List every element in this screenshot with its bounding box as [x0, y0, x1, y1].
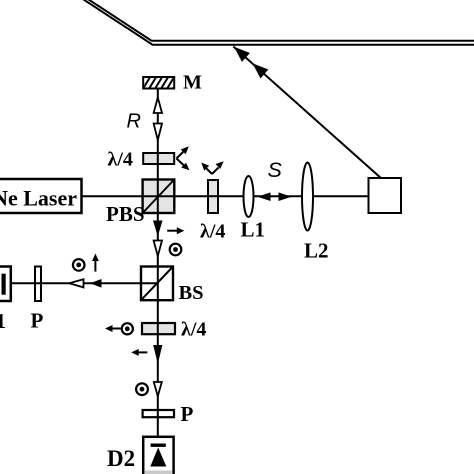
- scanning mirror top double line: [83, 0, 474, 45]
- svg-text:λ/4: λ/4: [108, 149, 133, 171]
- solid arrow left: [90, 279, 102, 288]
- open arrow down above P2: [154, 382, 162, 396]
- mirror M: [141, 74, 182, 92]
- polarizer P1 vertical: [35, 267, 41, 302]
- wire BS to D1: [11, 282, 141, 284]
- arrowhead up-left 1: [234, 47, 250, 62]
- wire laser to PBS: [82, 195, 143, 197]
- solid arrow down below PBS: [153, 221, 163, 237]
- open arrow down: [154, 124, 162, 141]
- solid arrow down below QWP3: [153, 345, 162, 364]
- BS cube: [141, 267, 173, 301]
- circle-dot left of open arrow: [136, 383, 148, 395]
- open arrow left: [69, 279, 83, 287]
- lens L2: [302, 163, 313, 231]
- detector D1: [0, 267, 11, 302]
- circle-dot left of QWP3: [122, 323, 133, 334]
- wire PBS to square: [174, 195, 368, 197]
- svg-text:R: R: [127, 111, 141, 133]
- laser box: [0, 179, 82, 213]
- wire PBS down to BS: [157, 213, 159, 267]
- polarization arrows right of QWP1: [177, 151, 185, 166]
- lens L1: [244, 176, 254, 217]
- svg-text:λ/4: λ/4: [200, 221, 225, 243]
- waveplate QWP2: [208, 180, 218, 213]
- polarizer P2 horizontal: [143, 410, 174, 417]
- svg-text:D2: D2: [107, 446, 135, 471]
- open arrow up: [154, 98, 162, 114]
- svg-text:λ/4: λ/4: [181, 319, 206, 341]
- svg-text:BS: BS: [179, 282, 204, 304]
- arrowhead up-left 2: [253, 63, 269, 78]
- wire BS down to D2: [157, 300, 159, 437]
- waveplate QWP1: [143, 153, 174, 164]
- PBS cube: [143, 180, 175, 214]
- svg-text:L2: L2: [304, 239, 329, 263]
- small arrow right below PBS: [167, 227, 184, 234]
- svg-text:L1: L1: [241, 218, 266, 242]
- small arrow left of QWP3: [105, 325, 121, 332]
- svg-text:D1: D1: [0, 309, 6, 333]
- arrowhead right on S beam: [279, 192, 292, 201]
- detector D2: [143, 437, 173, 474]
- svg-text:PBS: PBS: [106, 202, 145, 226]
- svg-text:He-Ne Laser: He-Ne Laser: [0, 186, 77, 211]
- open arrow down above BS: [154, 241, 162, 257]
- small arrow left below QWP3: [131, 349, 147, 356]
- polarization arrows above QWP2: [206, 168, 219, 175]
- circle-dot above left beam: [73, 259, 85, 271]
- svg-text:S: S: [268, 158, 283, 182]
- svg-text:P: P: [31, 309, 44, 333]
- wire diagonal beam to square: [233, 47, 382, 180]
- wire vertical beam R: [157, 89, 159, 180]
- square mirror box: [369, 178, 402, 213]
- waveplate QWP3: [142, 323, 175, 334]
- svg-text:M: M: [183, 72, 202, 94]
- svg-text:P: P: [181, 402, 194, 426]
- circle-dot right of open arrow: [170, 244, 182, 256]
- arrowhead left on S beam: [258, 192, 271, 201]
- small arrow up above left beam: [92, 254, 99, 272]
